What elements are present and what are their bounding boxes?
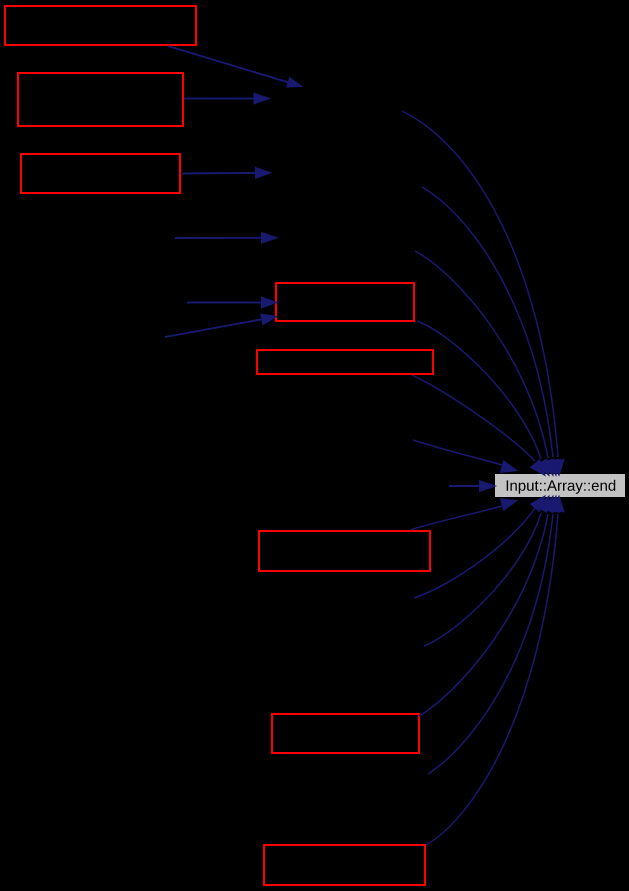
edge A7: hidden node -> end (horizontal into left edge) <box>449 481 496 492</box>
edge A5: hidden node -> R4 <box>187 297 277 308</box>
edge A1: R1 -> hidden node N1 <box>168 46 302 87</box>
edge C4: R4 -> end <box>417 321 549 476</box>
edge C6: hidden node -> end (into top-left corner) <box>413 440 517 472</box>
caller node R2 (red box, two-line) <box>18 73 183 126</box>
edge C10: R7 -> end <box>419 496 553 716</box>
edge C2: hidden N2 -> end <box>422 187 559 476</box>
edge C8: hidden node -> end (from below) <box>414 496 545 598</box>
caller node R4 (middle column) <box>276 283 414 321</box>
caller node R3 <box>21 154 180 193</box>
edge C7: R6 -> end (into bottom-left corner) <box>410 499 517 530</box>
edge C9: hidden node -> end <box>424 496 549 646</box>
edge A3: R3 -> hidden node N3 <box>182 168 271 179</box>
caller node R7 <box>272 714 419 753</box>
caller node R1 (red box top-left) <box>5 6 196 45</box>
edge C3: hidden N3 -> end <box>415 251 553 476</box>
edge A4: hidden node -> hidden node N4 <box>175 232 277 243</box>
edge C11: hidden node -> end <box>428 496 559 774</box>
edge C5: R5 -> end <box>412 375 545 476</box>
edge C12: R8 -> end (longest bottom arc) <box>426 496 564 845</box>
edge C1: hidden N1 -> end (longest top arc) <box>402 111 564 476</box>
caller node R8 (bottom) <box>264 845 425 885</box>
edge A2: R2 -> hidden node N2 <box>184 93 270 104</box>
label text Input::Array::end (as outline path) <box>507 480 616 494</box>
edge A6: hidden node -> R4 (diagonal) <box>165 314 277 337</box>
caller node R6 <box>259 531 430 571</box>
central node Input::Array::end (grey box) <box>495 474 625 497</box>
caller node R5 (short box) <box>257 350 433 374</box>
